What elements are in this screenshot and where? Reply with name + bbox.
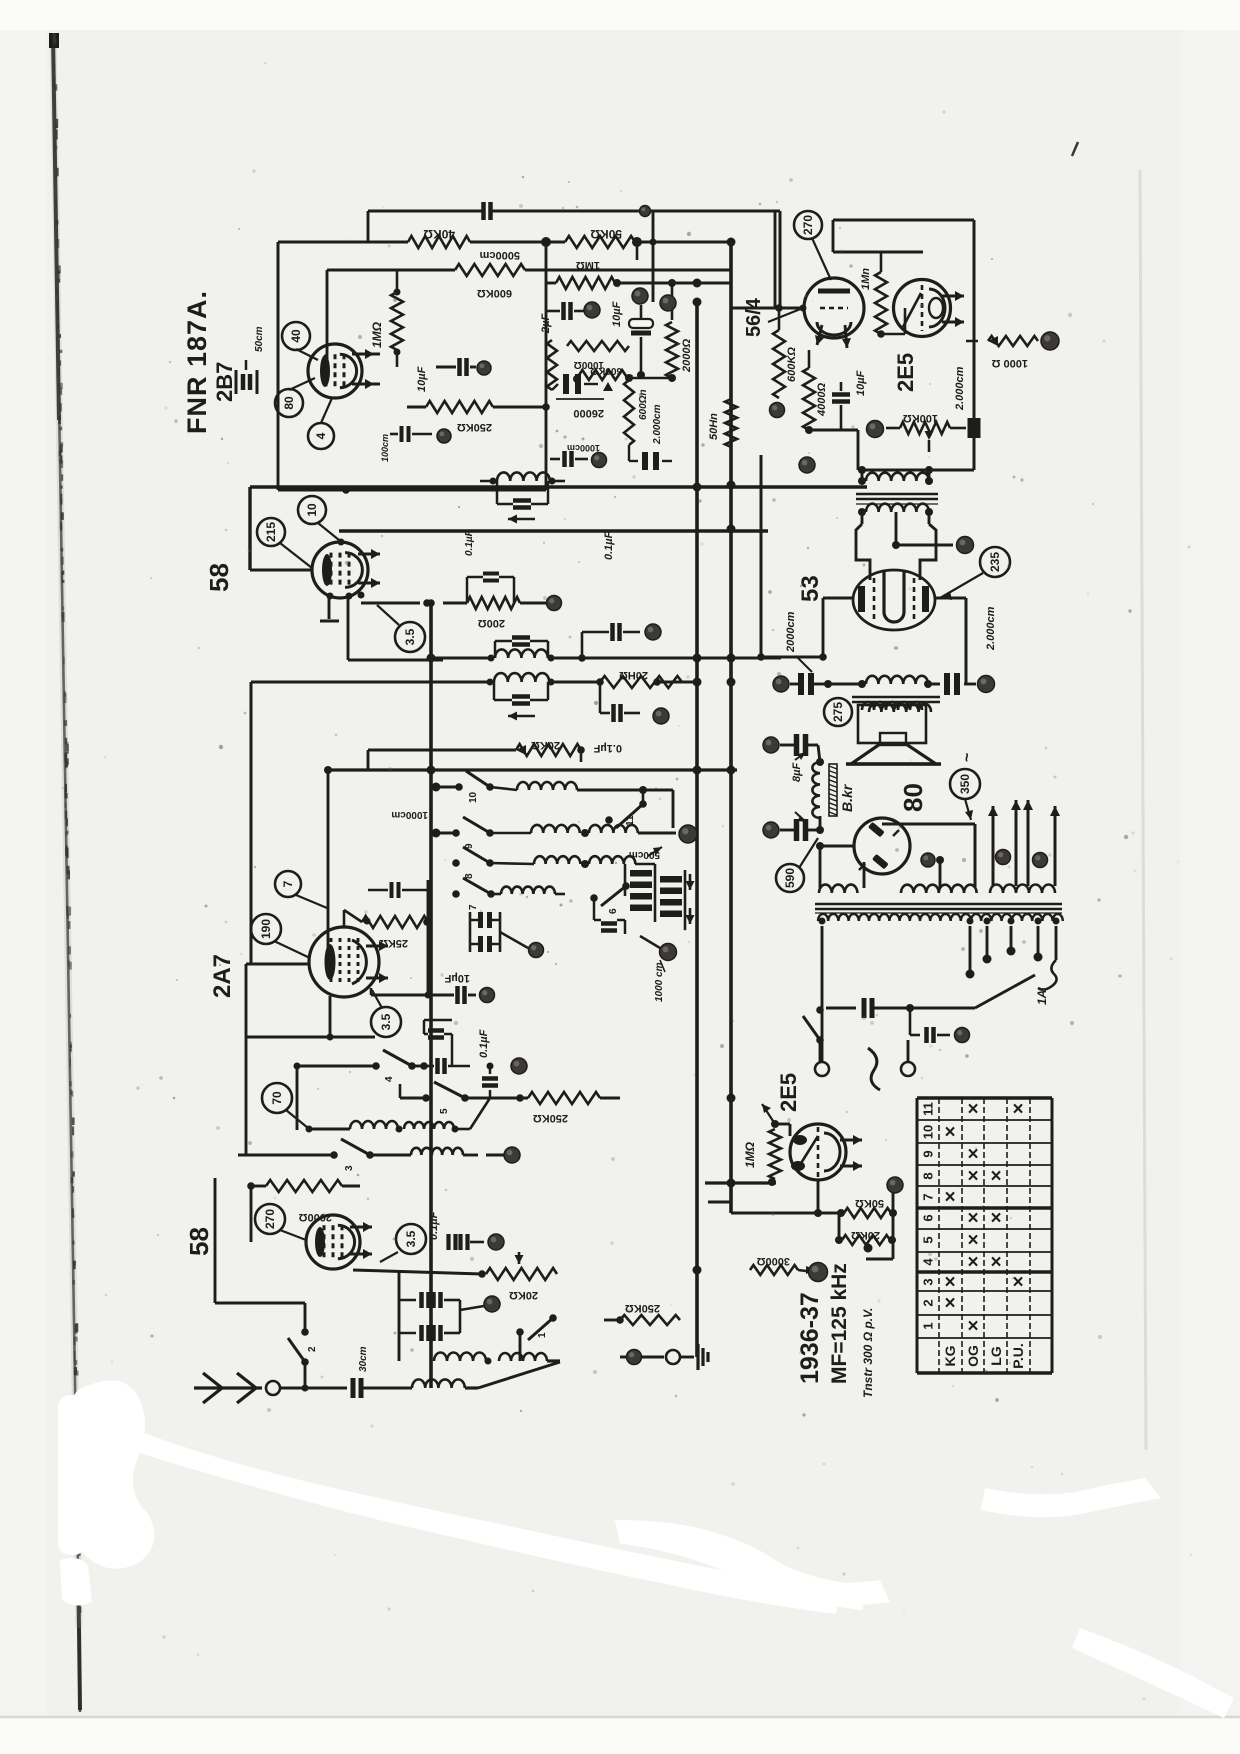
resistor 600KΩ vertical xyxy=(773,308,798,398)
wire T1 left xyxy=(862,470,929,524)
wire vertical drop x546 xyxy=(545,242,548,490)
tube 80 U8 xyxy=(854,818,910,874)
svg-text:58: 58 xyxy=(204,563,234,592)
terminal xyxy=(484,1296,500,1312)
svg-text:Tnstr 300 Ω p.V.: Tnstr 300 Ω p.V. xyxy=(861,1308,875,1398)
wire grid2 xyxy=(327,996,334,1041)
svg-text:OG: OG xyxy=(965,1345,981,1367)
svg-text:3: 3 xyxy=(921,1278,936,1285)
label MF=125kHz xyxy=(828,1263,851,1384)
label 5000cm xyxy=(479,249,520,261)
label 53 xyxy=(797,575,824,602)
svg-text:0.1µF: 0.1µF xyxy=(428,1211,440,1240)
label 26000 xyxy=(556,399,604,419)
switch 5 xyxy=(422,1082,469,1114)
lead fuse xyxy=(1035,926,1057,1005)
wire anode bus xyxy=(250,487,867,570)
wire xyxy=(368,746,585,770)
svg-text:1Mn: 1Mn xyxy=(860,268,872,290)
switch 11 xyxy=(605,800,647,828)
svg-text:2.000cm: 2.000cm xyxy=(652,404,663,445)
wire slant xyxy=(478,1362,560,1388)
svg-text:1MΩ: 1MΩ xyxy=(743,1141,757,1168)
svg-text:215: 215 xyxy=(264,522,278,542)
svg-text:1A: 1A xyxy=(1035,990,1049,1005)
resistor 25KΩ xyxy=(362,916,431,949)
tube 2E5b U9 xyxy=(790,1124,846,1180)
resistor 200Ω xyxy=(443,597,546,629)
svg-text:9: 9 xyxy=(921,1150,936,1157)
T2 coils xyxy=(828,676,932,688)
svg-text:11: 11 xyxy=(921,1102,936,1116)
label B.kr xyxy=(839,783,855,812)
svg-text:2000Ω: 2000Ω xyxy=(681,339,693,373)
resistor 600Ω vertical xyxy=(624,374,649,445)
terminal big xyxy=(809,1263,828,1282)
wire 2E5 top xyxy=(833,220,974,252)
terminal xyxy=(978,676,995,693)
IF2 capacitor xyxy=(495,638,548,659)
svg-text:×: × xyxy=(967,1099,978,1120)
capacitor 0.1µF par xyxy=(464,529,514,603)
svg-text:~: ~ xyxy=(959,753,976,762)
svg-text:10µF: 10µF xyxy=(855,370,867,396)
terminal xyxy=(867,421,884,438)
resistor 2000Ω vertical xyxy=(629,279,693,382)
sec leads xyxy=(819,918,1060,925)
wire xyxy=(731,481,867,487)
label 500cm xyxy=(629,847,662,860)
field coil xyxy=(812,762,837,818)
wire xyxy=(805,426,974,474)
terminal xyxy=(773,676,789,692)
svg-text:MF=125 kHz: MF=125 kHz xyxy=(828,1263,851,1384)
arrow xyxy=(795,812,806,822)
wire xyxy=(215,1303,305,1388)
caps block 1 xyxy=(399,1272,484,1361)
pin circle 190 xyxy=(251,914,310,958)
svg-text:6: 6 xyxy=(921,1214,936,1221)
terminal xyxy=(955,1028,970,1043)
capacitor 2000cm right xyxy=(928,673,976,695)
terminal xyxy=(511,1058,527,1074)
svg-text:8: 8 xyxy=(921,1172,936,1179)
capacitor grid xyxy=(368,882,428,898)
svg-text:2E5: 2E5 xyxy=(893,353,918,392)
electrode arrow xyxy=(358,549,380,588)
resistor 20KΩ c xyxy=(835,1229,896,1245)
wire second bus vertical xyxy=(695,300,699,1357)
T1 core xyxy=(856,494,938,504)
svg-text:2: 2 xyxy=(307,1346,318,1352)
svg-text:×: × xyxy=(967,1316,978,1337)
svg-text:80: 80 xyxy=(282,396,296,410)
tube 2B7 U1 xyxy=(308,344,362,398)
wire top xyxy=(821,1029,823,1031)
pin circle 4 xyxy=(308,398,334,449)
wire ground row xyxy=(620,1356,664,1359)
svg-text:58: 58 xyxy=(184,1227,214,1256)
scan spine edge xyxy=(53,33,80,1712)
svg-text:3.5: 3.5 xyxy=(403,628,417,645)
svg-text:P.U.: P.U. xyxy=(1010,1343,1026,1368)
mains cord xyxy=(868,1048,880,1090)
antenna terminal xyxy=(266,1381,280,1395)
svg-text:235: 235 xyxy=(988,552,1002,572)
svg-text:200Ω: 200Ω xyxy=(478,617,505,629)
capacitor 100cm xyxy=(380,426,432,462)
pin circle 235 xyxy=(940,547,1010,600)
terminal xyxy=(770,403,785,418)
resistor 3000Ω xyxy=(750,1255,816,1275)
wire sw11 xyxy=(639,786,647,804)
svg-text:×: × xyxy=(967,1208,978,1229)
pin circle 40 xyxy=(282,322,318,360)
svg-text:×: × xyxy=(967,1252,978,1273)
capacitor 1000cm xyxy=(550,443,600,467)
svg-text:×: × xyxy=(944,1293,955,1314)
wire xyxy=(775,1124,790,1183)
svg-text:×: × xyxy=(990,1208,1001,1229)
capacitor 30cm xyxy=(353,1346,369,1398)
svg-text:×: × xyxy=(967,1230,978,1251)
up arrow a xyxy=(988,806,998,886)
label 2B7 xyxy=(212,362,237,402)
capacitor 10µF xyxy=(416,358,476,392)
svg-text:×: × xyxy=(1012,1272,1023,1293)
wire xyxy=(640,936,660,948)
winding leads xyxy=(822,862,977,888)
svg-text:×: × xyxy=(944,1122,955,1143)
wire xyxy=(500,932,528,948)
terminal xyxy=(529,943,544,958)
pin circle 3.5 xyxy=(380,1224,426,1262)
mains open terminal b xyxy=(901,1008,915,1076)
svg-text:1000cm: 1000cm xyxy=(391,809,428,820)
capacitor band xyxy=(594,898,625,934)
svg-text:2A7: 2A7 xyxy=(209,954,236,998)
table row numbers xyxy=(921,1102,936,1329)
wire xyxy=(820,846,864,888)
eye arrows b xyxy=(840,1135,862,1171)
svg-text:2µF: 2µF xyxy=(540,314,552,334)
svg-text:LG: LG xyxy=(988,1346,1004,1366)
label 2.000cm xyxy=(954,366,966,411)
terminal xyxy=(1041,332,1059,350)
svg-text:7: 7 xyxy=(468,904,479,910)
svg-text:4: 4 xyxy=(921,1258,936,1266)
wire stub cap xyxy=(320,596,339,621)
switch 6 xyxy=(590,882,630,914)
switch 7 contact xyxy=(452,878,495,910)
resistor 1000Ω output xyxy=(966,336,1038,369)
svg-text:275: 275 xyxy=(831,702,845,722)
wire xyxy=(680,1356,694,1359)
speaker coil xyxy=(862,702,922,710)
left bracket xyxy=(246,964,375,1037)
tube 53 U7 xyxy=(853,570,935,630)
svg-text:1: 1 xyxy=(537,1332,548,1338)
svg-text:5: 5 xyxy=(921,1236,936,1243)
mains wire xyxy=(820,1008,830,1062)
svg-text:50Hn: 50Hn xyxy=(708,413,720,440)
svg-text:2: 2 xyxy=(921,1299,936,1306)
wire xyxy=(697,455,761,657)
svg-text:190: 190 xyxy=(259,919,273,939)
wire osc bus xyxy=(427,880,430,995)
svg-text:20KΩ: 20KΩ xyxy=(531,739,560,751)
svg-text:1MΩ: 1MΩ xyxy=(370,321,384,348)
core lines xyxy=(815,904,1062,913)
terminal xyxy=(799,457,815,473)
choke 50H vertical xyxy=(708,399,737,447)
resistor 1MΩ top xyxy=(556,259,615,289)
T2 core xyxy=(852,697,940,702)
wire xyxy=(731,1269,750,1271)
speaker cone xyxy=(846,744,941,764)
label 1000cm xyxy=(654,960,665,1002)
svg-text:×: × xyxy=(967,1166,978,1187)
svg-text:100KΩ: 100KΩ xyxy=(903,412,938,424)
antenna xyxy=(194,1373,262,1403)
capacitor below xyxy=(482,1063,498,1099)
svg-text:10: 10 xyxy=(468,791,479,803)
coil band 1 xyxy=(490,782,673,828)
electrode arrow xyxy=(366,941,388,983)
wire sw3 row xyxy=(238,1154,411,1157)
tube 58b U6 xyxy=(306,1215,360,1269)
tube 58 U4 xyxy=(312,542,368,598)
svg-text:3: 3 xyxy=(344,1165,355,1171)
terminal xyxy=(504,1147,520,1163)
resistor 250KΩ b xyxy=(604,1302,680,1325)
wire grid bus 58 xyxy=(339,529,768,532)
svg-text:10µF: 10µF xyxy=(444,972,470,984)
svg-text:350: 350 xyxy=(958,774,972,794)
padder capacitors b xyxy=(470,912,500,952)
capacitor 10µF an xyxy=(425,972,477,1004)
capacitor pair top xyxy=(424,1020,452,1066)
svg-text:2E5: 2E5 xyxy=(776,1073,801,1112)
svg-text:4000Ω: 4000Ω xyxy=(816,383,828,417)
svg-text:1: 1 xyxy=(921,1322,936,1329)
svg-text:B.kr: B.kr xyxy=(839,783,855,812)
coil band 2a xyxy=(490,825,580,833)
IF3 coil xyxy=(487,673,555,685)
label 0.1µF xyxy=(428,1211,440,1240)
svg-text:26000: 26000 xyxy=(573,407,604,419)
junction xyxy=(541,237,642,247)
wire grid bus xyxy=(327,270,731,360)
label 58 b xyxy=(184,1227,214,1256)
wire cathode row xyxy=(361,599,435,607)
thick row xyxy=(705,1183,776,1213)
terminal xyxy=(488,1234,504,1250)
terminal xyxy=(645,624,661,640)
svg-text:7: 7 xyxy=(921,1193,936,1200)
padder capacitors bank xyxy=(625,864,695,930)
svg-text:250KΩ: 250KΩ xyxy=(533,1112,568,1124)
svg-text:2.000cm: 2.000cm xyxy=(954,366,966,411)
tuning arrow xyxy=(508,515,535,524)
svg-text:270: 270 xyxy=(263,1209,277,1229)
svg-text:80: 80 xyxy=(898,783,928,812)
pin circle 350 xyxy=(950,753,980,820)
svg-text:5: 5 xyxy=(439,1108,450,1114)
tube pins xyxy=(327,592,365,600)
coil band 3b xyxy=(581,856,655,868)
mains switch xyxy=(803,1006,824,1044)
terminal band xyxy=(679,825,697,843)
coil band xyxy=(491,887,565,894)
svg-text:25KΩ: 25KΩ xyxy=(379,937,408,949)
label 1000cm grid xyxy=(391,809,428,820)
svg-text:×: × xyxy=(944,1272,955,1293)
wire sw5 row xyxy=(400,1084,528,1102)
wire grid row xyxy=(731,304,804,312)
secondary winding xyxy=(818,914,1063,921)
up arrow d xyxy=(1050,806,1060,886)
wire plate53 frame xyxy=(856,524,936,580)
svg-text:1000 Ω: 1000 Ω xyxy=(991,357,1028,369)
terminal xyxy=(763,737,779,753)
coil row a xyxy=(306,1098,491,1133)
wire sw9 left xyxy=(432,829,457,838)
label 56/4 xyxy=(743,297,765,337)
switch 8 xyxy=(452,847,494,879)
resistor 50KΩ xyxy=(565,227,635,248)
svg-text:3000Ω: 3000Ω xyxy=(757,1255,790,1267)
wire xyxy=(881,308,905,334)
terminal xyxy=(640,206,651,217)
svg-text:3.5: 3.5 xyxy=(379,1013,393,1030)
terminal xyxy=(887,1177,903,1193)
trimmer capacitor 50cm xyxy=(236,360,257,394)
svg-text:8µF: 8µF xyxy=(791,763,803,782)
wire band bus xyxy=(324,766,737,964)
svg-text:0.1µF: 0.1µF xyxy=(603,531,615,560)
terminal xyxy=(653,708,669,724)
tuning arrow xyxy=(508,712,535,721)
IF transformer primary coil xyxy=(480,472,565,484)
capacitor 0.1µF b xyxy=(600,682,640,722)
label 0.1µF xyxy=(478,1029,490,1058)
svg-text:70: 70 xyxy=(270,1091,284,1105)
label 8µF xyxy=(791,752,806,782)
capacitor row xyxy=(424,1058,470,1074)
lead 3 xyxy=(983,926,992,964)
wire xyxy=(519,1332,522,1361)
wire plate drop xyxy=(371,988,428,995)
coil band 3a xyxy=(490,856,580,864)
svg-text:30cm: 30cm xyxy=(358,1346,369,1372)
interstage trafo T1 coils xyxy=(858,473,933,516)
capacitor 2000cm xyxy=(970,418,978,438)
resistor 1MΩ vertical mid xyxy=(547,340,557,390)
lead 2 xyxy=(966,926,975,979)
wire heater xyxy=(936,856,944,888)
wire bus657 xyxy=(757,653,823,661)
svg-text:10: 10 xyxy=(305,503,319,517)
IF3 capacitor xyxy=(494,682,548,704)
tube 56/4 U2 xyxy=(804,278,864,338)
mains open terminal a xyxy=(815,1062,829,1076)
switch 2 xyxy=(288,1328,318,1366)
terminal xyxy=(1033,853,1048,868)
terminal xyxy=(480,988,495,1003)
tube 2A7 U5 xyxy=(309,927,379,997)
wire bus2 xyxy=(251,682,600,964)
capacitor 2000cm xyxy=(790,673,832,695)
terminal xyxy=(592,453,607,468)
wire xyxy=(280,1385,347,1392)
wire 56 outer box xyxy=(774,211,777,308)
choke 20H xyxy=(596,669,697,688)
wire sw4 row xyxy=(294,1062,428,1130)
scan specks xyxy=(776,201,778,203)
wire xyxy=(935,598,966,684)
table X marks xyxy=(944,1099,1023,1337)
leader xyxy=(768,305,807,323)
wire left bracket xyxy=(215,1178,251,1303)
terminal xyxy=(921,853,935,867)
capacitor xyxy=(910,1008,950,1043)
svg-text:4: 4 xyxy=(384,1076,395,1082)
svg-text:10: 10 xyxy=(921,1125,936,1139)
svg-text:100cm: 100cm xyxy=(380,434,390,462)
coil band 2b xyxy=(581,825,676,837)
wire top cap xyxy=(892,512,953,549)
IF trafo capacitor xyxy=(497,481,548,508)
pin circle 215 xyxy=(257,518,312,568)
svg-text:10µF: 10µF xyxy=(416,366,428,392)
wire xyxy=(246,962,309,1155)
resistor 250KΩ cathode xyxy=(407,401,550,433)
switch 1 xyxy=(516,1314,557,1340)
capacitor 8µF a xyxy=(780,734,818,756)
wire xyxy=(965,683,967,685)
svg-text:600KΩ: 600KΩ xyxy=(590,365,622,376)
wire xyxy=(250,569,312,572)
up arrow c xyxy=(1023,800,1033,886)
svg-text:4: 4 xyxy=(314,432,328,439)
wire bottom loop xyxy=(278,413,546,494)
svg-text:×: × xyxy=(1012,1099,1023,1120)
lead 1 xyxy=(821,926,824,1062)
terminal xyxy=(547,596,562,611)
capacitor 0.1 xyxy=(360,1234,484,1250)
resistor 600KΩ mid xyxy=(573,365,632,391)
wire plate xyxy=(362,354,380,384)
svg-text:0.1µF: 0.1µF xyxy=(464,529,475,556)
svg-text:270: 270 xyxy=(801,215,815,235)
wire sw10 left xyxy=(432,783,460,792)
capacitor series in top loop xyxy=(484,202,491,220)
label 0.1µF c xyxy=(593,742,622,754)
svg-text:590: 590 xyxy=(783,868,797,888)
resistor 40KΩ xyxy=(408,227,470,248)
resistor 1MΩ xyxy=(860,252,887,338)
svg-text:10µF: 10µF xyxy=(611,301,623,327)
label Tnstr xyxy=(861,1308,875,1398)
resistor 50KΩ c xyxy=(837,1197,897,1218)
capacitor pair block xyxy=(629,445,672,470)
svg-text:56/4: 56/4 xyxy=(743,297,765,337)
wire xyxy=(816,842,854,850)
rect loop xyxy=(882,818,975,888)
wire cathode xyxy=(353,1270,486,1278)
svg-text:×: × xyxy=(990,1252,1001,1273)
